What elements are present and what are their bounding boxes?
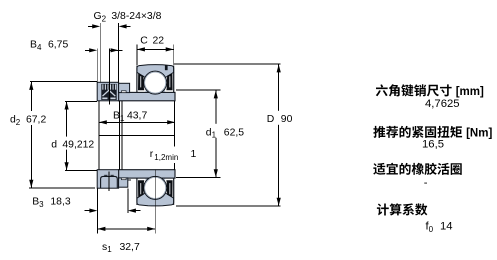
svg-text:[mm]: [mm]	[456, 86, 484, 98]
label r1,2 min	[148, 147, 198, 164]
svg-text:C: C	[140, 35, 148, 46]
outer ring side faces	[136, 66, 138, 93]
collar seat step (lower)	[119, 178, 128, 187]
svg-text:16,5: 16,5	[422, 139, 444, 151]
dimension d2	[30, 81, 97, 83]
mid reference line	[99, 135, 175, 137]
seat notch (lower)	[121, 178, 126, 180]
svg-text:1: 1	[191, 149, 197, 160]
inner ring right face	[174, 92, 176, 100]
collar seat step (upper)	[119, 83, 130, 92]
hole shoulder ticks	[104, 174, 107, 176]
inner ring band	[119, 170, 175, 178]
right seal pocket (recess)	[164, 179, 173, 198]
dimension C	[136, 45, 138, 65]
svg-text:-: -	[424, 177, 428, 189]
seat edge tick (lower)	[128, 179, 131, 181]
seat notch (upper)	[121, 91, 126, 93]
svg-text:18,3: 18,3	[50, 196, 70, 207]
svg-text:D: D	[267, 114, 275, 125]
lower ball centerline / s1 extension	[154, 170, 156, 234]
lube hole in outer ring	[165, 65, 168, 70]
dimension B4	[96, 48, 98, 82]
screw hole centerline (lower)	[108, 171, 110, 191]
svg-text:43,7: 43,7	[127, 110, 147, 121]
grub screw centerline	[109, 48, 111, 104]
locking collar (upper, with grub screw section)	[97, 82, 118, 101]
locking collar (lower section)	[97, 170, 118, 189]
outer ring side faces	[136, 178, 138, 205]
dimension d1	[176, 89, 221, 91]
spec: rubber ring label	[373, 163, 385, 175]
left seal	[138, 73, 144, 90]
inner ring band	[119, 92, 175, 100]
left seal	[138, 180, 144, 197]
hex socket chevron	[103, 90, 116, 96]
right seal	[166, 180, 172, 197]
upper bearing section	[119, 65, 175, 101]
dimension d	[65, 100, 97, 102]
svg-text:67,2: 67,2	[26, 114, 46, 125]
left seal pocket (recess)	[137, 73, 146, 92]
dimension G2 thread	[99, 23, 101, 82]
collar interface lines through bore	[119, 101, 121, 170]
dimension B3	[96, 188, 98, 233]
raceway	[144, 71, 167, 94]
svg-text:6,75: 6,75	[48, 40, 68, 51]
svg-text:1,2min: 1,2min	[154, 153, 178, 162]
outer ring (spherical OD, section)	[137, 178, 174, 206]
dimension s1	[97, 228, 155, 230]
svg-text:4,7625: 4,7625	[425, 98, 460, 110]
svg-text:r: r	[150, 149, 154, 160]
outer ring (spherical OD, section)	[137, 65, 174, 93]
svg-text:3/8-24×3/8: 3/8-24×3/8	[111, 11, 161, 22]
raceway	[144, 176, 167, 199]
thread crests	[102, 84, 103, 89]
svg-text:49,212: 49,212	[62, 139, 94, 150]
dimension B1	[99, 121, 175, 123]
svg-text:d: d	[51, 139, 57, 150]
spec: tightening torque label	[373, 126, 385, 138]
dimension D	[174, 63, 281, 65]
ball	[145, 72, 166, 93]
grub screw threaded bore (dark)	[101, 84, 116, 100]
ball	[145, 177, 166, 198]
right seal pocket (recess)	[164, 73, 173, 92]
svg-text:22: 22	[153, 35, 165, 46]
spec: calculation factor label	[377, 203, 389, 215]
svg-text:62,5: 62,5	[224, 127, 244, 138]
svg-text:90: 90	[281, 114, 293, 125]
inner ring right face seen through bore	[173, 101, 175, 170]
svg-text:[Nm]: [Nm]	[466, 128, 492, 140]
spec: hex key size label	[376, 84, 388, 96]
svg-text:14: 14	[440, 221, 453, 233]
inner ring left face seen through bore	[98, 101, 100, 170]
inner ring right face	[174, 170, 176, 178]
svg-text:32,7: 32,7	[120, 242, 140, 253]
left seal pocket (recess)	[137, 179, 146, 198]
screw tip facets	[102, 98, 107, 100]
screw hole outline (lower)	[101, 176, 118, 188]
lower bearing section (mirror)	[119, 170, 175, 206]
right seal	[166, 73, 172, 90]
